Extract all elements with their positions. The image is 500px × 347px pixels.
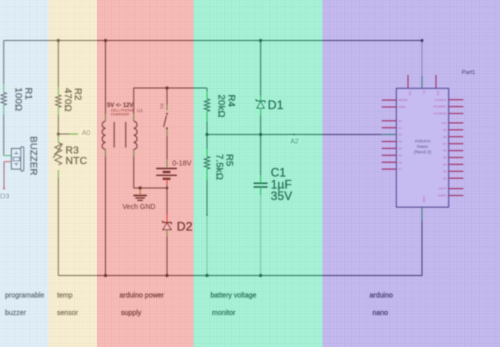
pin labels right xyxy=(433,98,447,198)
caption programable buzzer xyxy=(5,293,393,317)
diode D1 (zener) xyxy=(256,96,265,115)
wire switch to battery xyxy=(166,136,168,160)
pin GND bottom connected (green) xyxy=(421,207,423,221)
wire R4 bottom to A2 node xyxy=(206,122,208,135)
node A0 xyxy=(70,133,78,135)
pin leads right xyxy=(449,100,464,196)
battery 0-18V xyxy=(156,160,177,185)
wire bottom rail GND xyxy=(58,221,422,276)
wire transformer primary to bottom rail xyxy=(105,157,107,276)
wire R5 to mid joint xyxy=(206,180,208,216)
pin labels left xyxy=(398,98,408,171)
wire 5V rail drop to transformer xyxy=(105,41,107,115)
buzzer xyxy=(4,147,24,171)
wire switch top lead xyxy=(166,88,168,105)
resistor R5 xyxy=(204,149,209,180)
wire transformer secondary top to switch node xyxy=(134,88,207,114)
wire A2 node to C1 xyxy=(260,135,262,176)
wire R5 lower faded segment xyxy=(206,215,208,276)
band: programable buzzer (blue overlay) xyxy=(0,0,49,347)
thermistor R3 NTC xyxy=(53,137,62,177)
band: temp sensor (cream overlay) xyxy=(49,0,98,347)
capacitor C1 xyxy=(254,176,268,196)
ground Vech GND xyxy=(133,188,146,200)
resistor R4 xyxy=(204,92,209,122)
chip body xyxy=(397,89,449,208)
wire C1 to bottom rail (faded) xyxy=(260,195,262,276)
wire R3 to bottom rail xyxy=(57,177,59,275)
diode D2 (zener) xyxy=(163,215,172,237)
wire D1 drop from rail xyxy=(260,41,262,97)
arduino nano Part1 xyxy=(382,75,464,221)
switch S1 xyxy=(164,105,168,137)
wire R5 top lead xyxy=(206,135,208,150)
node A2 xyxy=(289,137,300,145)
pin leads top xyxy=(408,75,436,89)
node D3 xyxy=(0,191,11,200)
resistor R1 xyxy=(1,84,6,114)
wire node A2 horizontal xyxy=(207,134,382,136)
wire left drop to R1 xyxy=(3,41,5,85)
wire transformer secondary bottom to battery minus xyxy=(134,157,167,189)
wire battery minus down xyxy=(166,184,168,215)
wire R4 top lead xyxy=(206,88,208,92)
resistor R2 xyxy=(56,87,61,114)
wire R1 to buzzer xyxy=(3,114,5,156)
pin A2 connected (green) xyxy=(382,134,397,136)
pin 5V top connected (green) xyxy=(421,76,423,89)
band: arduino nano (purple overlay) xyxy=(323,0,500,347)
pin leads left xyxy=(382,100,397,169)
wire D1 to A2 node xyxy=(260,115,262,135)
band: arduino power supply (pink overlay) xyxy=(97,0,194,347)
wire R2 to A0 node xyxy=(57,115,59,138)
band: battery voltage monitor (green overlay) xyxy=(194,0,323,347)
wire R2 drop xyxy=(57,41,59,88)
wire buzzer to D3 (red) xyxy=(3,162,5,189)
transformer U1 xyxy=(102,114,137,156)
wire rail to arduino 5V pin (faded) xyxy=(421,41,423,77)
wire top rail 5V xyxy=(4,40,422,42)
pin labels top (rotated) xyxy=(408,91,440,97)
wire A0 stub xyxy=(58,133,70,135)
wire D2 to bottom rail xyxy=(166,237,168,276)
